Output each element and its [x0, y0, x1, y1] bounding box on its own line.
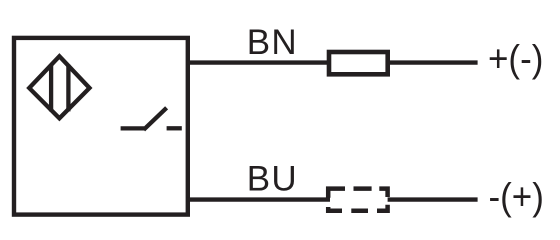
svg-text:BN: BN: [247, 23, 298, 62]
svg-text:BU: BU: [247, 160, 298, 199]
svg-text:+(-): +(-): [488, 37, 543, 79]
svg-text:-(+): -(+): [489, 175, 544, 217]
